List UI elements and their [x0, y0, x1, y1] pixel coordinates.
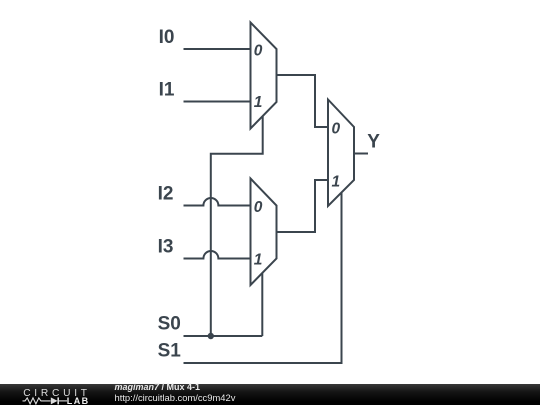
junction S0: [208, 333, 214, 339]
svg-text:I2: I2: [158, 183, 174, 204]
wire S0: [184, 335, 263, 337]
wire U1 select to S0 riser: [211, 116, 263, 336]
svg-text:LAB: LAB: [67, 396, 90, 405]
wire I3 to U2 pin 1 (hop over S0 riser): [184, 251, 251, 259]
svg-text:http://circuitlab.com/cc9m42v: http://circuitlab.com/cc9m42v: [115, 392, 236, 403]
svg-text:magiman7 / Mux 4-1: magiman7 / Mux 4-1: [115, 382, 201, 392]
logo diode symbol: [51, 397, 58, 404]
svg-text:0: 0: [332, 120, 341, 137]
svg-text:S1: S1: [158, 340, 182, 361]
footer bar: [0, 384, 540, 405]
svg-text:0: 0: [254, 42, 263, 59]
wire I1 to U1 pin 1: [184, 101, 251, 103]
mux U2 (2:1 bottom): [251, 179, 277, 286]
svg-text:S0: S0: [158, 313, 181, 334]
wire U1 output to U3 pin 0: [277, 75, 329, 127]
wire I0 to U1 pin 0: [184, 48, 251, 50]
svg-text:1: 1: [254, 251, 263, 268]
wire U2 output to U3 pin 1: [277, 180, 329, 232]
logo resistor zigzag and wire: [23, 398, 51, 404]
mux U3 (2:1 output stage): [328, 100, 354, 207]
svg-text:I0: I0: [159, 27, 175, 48]
wire U3 output to Y: [354, 153, 368, 155]
wire U2 select to S0: [261, 273, 263, 336]
svg-text:I1: I1: [159, 80, 175, 101]
mux U1 (2:1 top): [251, 23, 277, 129]
svg-text:0: 0: [254, 199, 263, 216]
svg-text:1: 1: [254, 94, 263, 111]
wire S1 to U3 select: [184, 193, 342, 363]
svg-text:1: 1: [332, 173, 341, 190]
svg-text:Y: Y: [367, 132, 380, 153]
wire I2 to U2 pin 0 (hop over S0 riser): [184, 198, 251, 205]
svg-text:I3: I3: [158, 236, 174, 257]
